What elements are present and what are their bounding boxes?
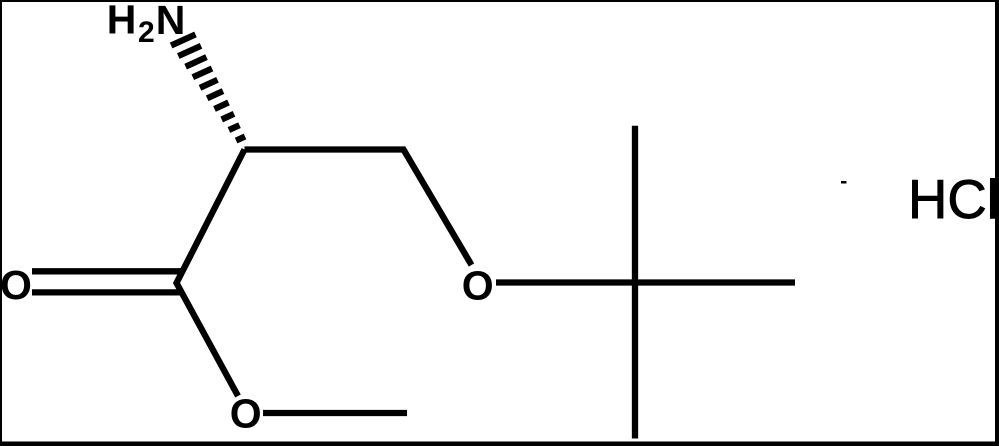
svg-text:2: 2 <box>138 16 155 49</box>
wire backbone: stereocenter to CH2 to ether O <box>245 150 472 266</box>
carbonyl C=O double bond lower line <box>32 289 182 295</box>
svg-text:O: O <box>0 262 32 308</box>
svg-text:HCl: HCl <box>908 169 999 230</box>
border frame bottom <box>0 442 999 446</box>
carbonyl C=O double bond upper line <box>32 268 183 274</box>
svg-text:N: N <box>156 0 186 43</box>
wire: ether O to t-Bu quaternary carbon and methyl right <box>496 279 795 285</box>
hashed wedge bond to NH2 (narrow at stereocenter) <box>171 34 245 140</box>
t-Bu vertical: methyl up and methyl down through quaternary C <box>632 126 638 439</box>
border frame top <box>0 0 999 2</box>
border frame right <box>995 0 999 446</box>
wire: ester O to methyl <box>263 410 407 416</box>
svg-text:O: O <box>462 263 494 309</box>
border frame left <box>0 0 2 446</box>
svg-text:O: O <box>230 391 262 437</box>
small stray dash mark <box>841 181 847 184</box>
svg-text:H: H <box>107 0 137 43</box>
wire: stereocenter to carbonyl C to ester O <box>177 150 245 397</box>
